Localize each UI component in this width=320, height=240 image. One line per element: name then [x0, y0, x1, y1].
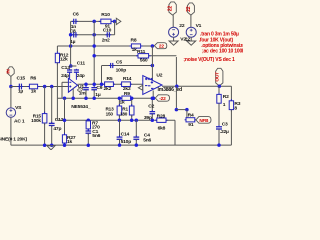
wire C2 bottom	[151, 114, 153, 120]
op-amp U2	[143, 76, 162, 95]
wire bottom net rail	[57, 119, 175, 121]
wire R13 column	[118, 98, 120, 106]
svg-text:22: 22	[186, 6, 192, 12]
svg-text:22: 22	[179, 23, 185, 29]
node rail120 C2	[151, 118, 155, 122]
node R8 right	[151, 44, 155, 48]
wire R3 top	[230, 86, 232, 101]
wire x64 column	[64, 98, 66, 134]
wire U1 inv input	[62, 81, 68, 83]
svg-text:NFB: NFB	[199, 118, 209, 123]
flag net 22	[154, 43, 166, 49]
svg-text:U2: U2	[156, 73, 162, 79]
svg-text:VS: VS	[15, 105, 22, 111]
node rail98 C7	[84, 96, 88, 100]
ground main	[47, 146, 55, 150]
resistor R6	[27, 86, 29, 88]
svg-text:100p: 100p	[116, 67, 127, 73]
node IN-VS	[9, 85, 13, 89]
svg-text:100k: 100k	[31, 118, 41, 123]
U2 glyphs	[145, 78, 147, 80]
resistor R14	[120, 83, 122, 85]
resistor R7	[87, 119, 89, 121]
resistor R12	[56, 51, 58, 53]
wire R1 bottom	[131, 115, 133, 120]
svg-text:1: 1	[223, 102, 226, 108]
capacitor C12	[51, 122, 53, 124]
wire C13 stub	[69, 73, 71, 79]
svg-text:1m: 1m	[79, 91, 87, 97]
node brail R15	[43, 143, 47, 147]
svg-text:2k2: 2k2	[104, 86, 112, 92]
wire R1 column	[131, 98, 133, 106]
capacitor C15	[18, 86, 20, 88]
svg-text:22: 22	[159, 44, 164, 50]
capacitor C9	[93, 86, 95, 88]
svg-text:C14: C14	[121, 132, 130, 138]
svg-text:OUT: OUT	[214, 72, 220, 82]
wire R11 rail	[94, 55, 176, 57]
resistor R10	[99, 20, 101, 22]
svg-text:;ac dec 100 10 100K: ;ac dec 100 10 100K	[202, 48, 243, 54]
resistor R15	[44, 112, 46, 114]
voltage source VS	[6, 108, 15, 117]
node C5-Vplus	[151, 64, 155, 68]
wire C4 bottom	[135, 139, 137, 145]
wire fb down	[186, 110, 188, 120]
svg-text:1k: 1k	[31, 88, 37, 94]
flag net -22	[155, 95, 169, 101]
wire C5 rail	[102, 65, 153, 67]
svg-text:C10: C10	[103, 28, 112, 34]
node out-fb	[175, 84, 179, 88]
node rail2 left	[69, 33, 73, 37]
svg-text:.22µ: .22µ	[220, 129, 229, 135]
node rail98 x64col	[63, 96, 67, 100]
wire C12 top	[51, 87, 53, 124]
node comp	[69, 64, 73, 68]
node out-R2	[218, 84, 222, 88]
capacitor C13	[69, 69, 71, 70]
node brail C14	[118, 143, 122, 147]
node brail C3	[217, 143, 221, 147]
wire C9 bottom	[93, 90, 95, 98]
wire C2 top	[151, 98, 153, 110]
node rail120 R1	[130, 118, 134, 122]
node rail1-fb	[92, 20, 96, 24]
wire U2 Vminus stub	[152, 91, 154, 99]
node C5col-out	[100, 82, 104, 86]
wire VS top	[10, 87, 12, 109]
svg-text:5n6: 5n6	[92, 133, 100, 139]
svg-text:C3: C3	[222, 122, 228, 128]
svg-text:1µ: 1µ	[95, 92, 101, 98]
wire bottom rail	[11, 144, 232, 146]
svg-text:R5: R5	[107, 76, 113, 82]
wire fb col lower	[175, 86, 177, 109]
node input-R15	[43, 85, 47, 89]
flag net 22b top	[187, 3, 194, 15]
svg-text:C6: C6	[73, 12, 79, 18]
node rail120 x64	[63, 118, 67, 122]
wire R12 top stub	[56, 46, 58, 52]
wire 22 col to U2	[151, 46, 153, 80]
node brail R27	[63, 143, 67, 147]
resistor R3	[230, 99, 232, 101]
svg-text:R10: R10	[101, 12, 110, 18]
resistor R27	[64, 133, 66, 135]
wire VS bottom	[10, 117, 12, 145]
wire x62 column	[61, 82, 63, 98]
svg-text:C9: C9	[96, 85, 102, 91]
node minus22	[152, 96, 156, 100]
wire V1 gnd stub	[190, 37, 192, 41]
resistor R9	[120, 97, 122, 99]
svg-text:150: 150	[106, 111, 114, 116]
svg-text:R6: R6	[30, 76, 36, 82]
node brail C4	[135, 143, 139, 147]
svg-text:C13: C13	[61, 65, 70, 71]
node rail98 U1	[71, 96, 75, 100]
wire R2-C3	[218, 103, 220, 126]
wire R13 bottom	[118, 115, 120, 120]
node rail1 right	[113, 20, 117, 24]
wire input rail	[11, 86, 69, 88]
node brail C12	[50, 143, 54, 147]
wire R8 rail	[57, 45, 152, 47]
resistor R28	[155, 119, 157, 121]
svg-text:1k: 1k	[67, 139, 73, 145]
svg-text:;noise V(OUT) VS dec 1: ;noise V(OUT) VS dec 1	[183, 57, 235, 63]
capacitor C5	[109, 65, 111, 67]
wire R3 bottom	[230, 110, 232, 146]
svg-text:-22: -22	[159, 96, 166, 102]
svg-text:22: 22	[168, 6, 174, 12]
capacitor C3	[218, 125, 220, 127]
capacitor C10	[105, 34, 107, 36]
wire U1 Vminus stub	[72, 89, 74, 99]
resistor R11	[136, 55, 138, 57]
svg-text:12k: 12k	[60, 56, 68, 62]
voltage source V1	[186, 27, 196, 37]
wire fb right col upper	[175, 57, 177, 86]
svg-text:C15: C15	[17, 76, 26, 82]
node R9-R1	[130, 96, 134, 100]
wire C5 left col	[101, 66, 103, 85]
output port arrow	[116, 18, 121, 24]
svg-text:SINE(0 1 20K): SINE(0 1 20K)	[0, 137, 27, 143]
wire C7 bottom	[85, 90, 87, 98]
resistor R1	[131, 104, 133, 106]
svg-text:1µ: 1µ	[18, 89, 24, 95]
svg-text:R11: R11	[137, 49, 146, 55]
wire fb jog	[176, 109, 187, 111]
svg-text:IN: IN	[6, 69, 11, 73]
node fb-R8	[92, 44, 96, 48]
wire V1 stem	[190, 15, 192, 27]
voltage source V2	[169, 27, 179, 37]
svg-text:R2: R2	[223, 94, 229, 100]
ground V2	[169, 41, 178, 45]
svg-text:R9: R9	[124, 91, 130, 97]
wire C12 bottom	[51, 126, 53, 146]
U2 input marker	[138, 85, 142, 90]
flag net 22 top	[169, 2, 176, 15]
svg-text:24p: 24p	[77, 73, 85, 79]
resistor R8	[129, 45, 131, 47]
capacitor C14	[119, 136, 121, 138]
svg-text:91: 91	[188, 122, 194, 128]
flag net OUT	[216, 68, 223, 86]
node fb-R11	[92, 54, 96, 58]
svg-text:R8: R8	[131, 38, 137, 44]
wire C14 bottom	[119, 139, 121, 145]
node fb jog right	[185, 108, 189, 112]
wire x57 to rail	[56, 98, 58, 120]
wire V2 stem	[172, 15, 174, 27]
wire R2 top	[218, 86, 220, 94]
svg-text:2n2: 2n2	[102, 37, 110, 43]
wire U1 ground rail	[57, 97, 153, 99]
wire C3 bottom	[218, 129, 220, 145]
node rail120 R7	[87, 118, 91, 122]
op-amp U1	[68, 78, 77, 92]
svg-text:NE5534_: NE5534_	[71, 104, 91, 110]
ground V1	[187, 41, 196, 45]
svg-text:8: 8	[234, 105, 237, 111]
node rail98 C9	[92, 96, 96, 100]
wire R28 corner down	[174, 120, 176, 145]
node rail120 C4	[135, 118, 139, 122]
svg-text:C11: C11	[77, 61, 86, 67]
resistor R2	[218, 93, 220, 95]
node brail C1	[87, 143, 91, 147]
svg-text:180: 180	[120, 111, 128, 116]
node x72-R8	[69, 44, 73, 48]
svg-text:1k: 1k	[120, 100, 126, 106]
capacitor C1	[87, 129, 89, 131]
svg-text:AC 1: AC 1	[14, 118, 25, 124]
capacitor C2	[151, 110, 153, 112]
svg-text:lm3886_ed: lm3886_ed	[158, 87, 183, 93]
resistor R5	[103, 83, 105, 85]
wire U2 out	[162, 85, 231, 87]
resistor R4	[185, 119, 186, 121]
U1 minus glyph	[69, 81, 71, 83]
wire rail1	[71, 20, 117, 22]
node rail120 R13	[118, 118, 122, 122]
svg-text:C5: C5	[116, 60, 122, 66]
wire left column	[70, 21, 72, 66]
wire IN stem	[10, 76, 12, 86]
svg-text:R4: R4	[188, 113, 194, 119]
capacitor C6	[72, 20, 74, 22]
wire C4 top	[135, 120, 137, 136]
flag net IN	[8, 67, 15, 77]
wire C1 bottom	[87, 133, 89, 145]
wire R7 top	[87, 119, 89, 122]
U1 plus glyph	[69, 86, 71, 88]
wire fb column x94	[93, 21, 95, 84]
resistor R13	[118, 104, 120, 106]
svg-text:C2: C2	[148, 103, 154, 109]
svg-text:47p: 47p	[53, 126, 61, 132]
wire C11 stub	[75, 73, 77, 80]
wire R15 top	[44, 87, 46, 114]
wire R4 rail	[187, 119, 196, 121]
node C9 top	[92, 82, 96, 86]
capacitor C11	[75, 69, 77, 70]
svg-text:R28: R28	[157, 113, 166, 119]
svg-text:R14: R14	[123, 76, 132, 82]
node rail2-fb	[92, 33, 96, 37]
node fb corner	[175, 108, 179, 112]
svg-text:510p: 510p	[121, 139, 132, 145]
wire R15 bottom	[44, 123, 46, 145]
wire comp rail	[70, 65, 77, 67]
capacitor C7	[85, 86, 87, 88]
wire x57 long column	[56, 63, 58, 98]
svg-text:V1: V1	[196, 23, 202, 29]
node C7 top	[84, 82, 88, 86]
svg-text:560: 560	[140, 57, 148, 63]
wire OUT stem	[218, 85, 220, 87]
flag net NFB	[196, 117, 211, 124]
capacitor C4	[135, 136, 137, 138]
capacitor C8	[72, 34, 74, 36]
wire U1 out rail	[78, 83, 143, 85]
wire rail2	[71, 34, 115, 36]
wire C14 top	[119, 120, 121, 136]
node rail98-R13	[118, 96, 122, 100]
svg-text:5n6: 5n6	[143, 137, 151, 143]
svg-text:6k8: 6k8	[158, 126, 166, 132]
node rail98 C2	[151, 96, 155, 100]
node input-C12	[50, 85, 54, 89]
wire V2 gnd stub	[173, 37, 175, 41]
wire right col top	[114, 21, 116, 34]
